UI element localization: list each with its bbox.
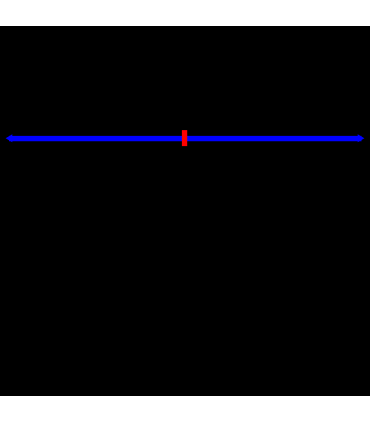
point marker (red tick) at center: [182, 130, 187, 146]
left arrowhead: [6, 134, 13, 142]
number line axis (blue): [9, 136, 362, 141]
right arrowhead: [358, 134, 365, 142]
